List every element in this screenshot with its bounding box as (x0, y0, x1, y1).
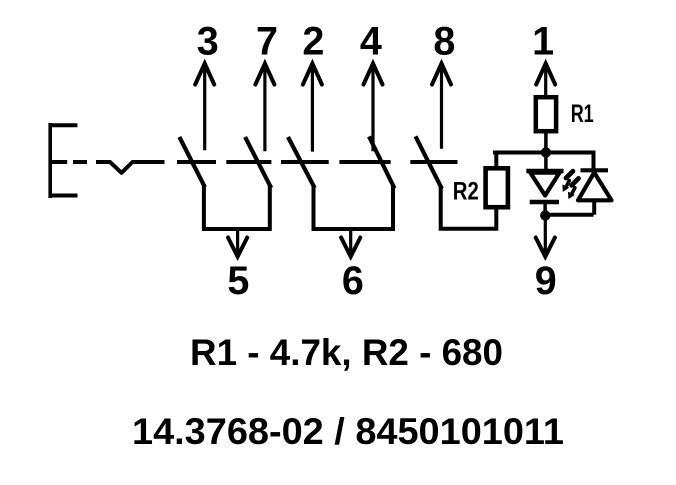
svg-text:3: 3 (197, 19, 219, 63)
svg-text:R1: R1 (571, 100, 594, 128)
svg-text:R1 - 4.7k, R2 - 680: R1 - 4.7k, R2 - 680 (190, 331, 503, 373)
svg-text:1: 1 (532, 19, 554, 63)
svg-text:6: 6 (342, 259, 364, 303)
svg-text:5: 5 (227, 259, 249, 303)
svg-text:9: 9 (535, 259, 557, 303)
svg-text:14.3768-02 / 8450101011: 14.3768-02 / 8450101011 (132, 410, 564, 452)
svg-text:R2: R2 (453, 178, 479, 206)
svg-text:8: 8 (433, 19, 455, 63)
svg-text:4: 4 (360, 19, 382, 63)
svg-text:2: 2 (302, 19, 324, 63)
svg-text:7: 7 (256, 19, 278, 63)
